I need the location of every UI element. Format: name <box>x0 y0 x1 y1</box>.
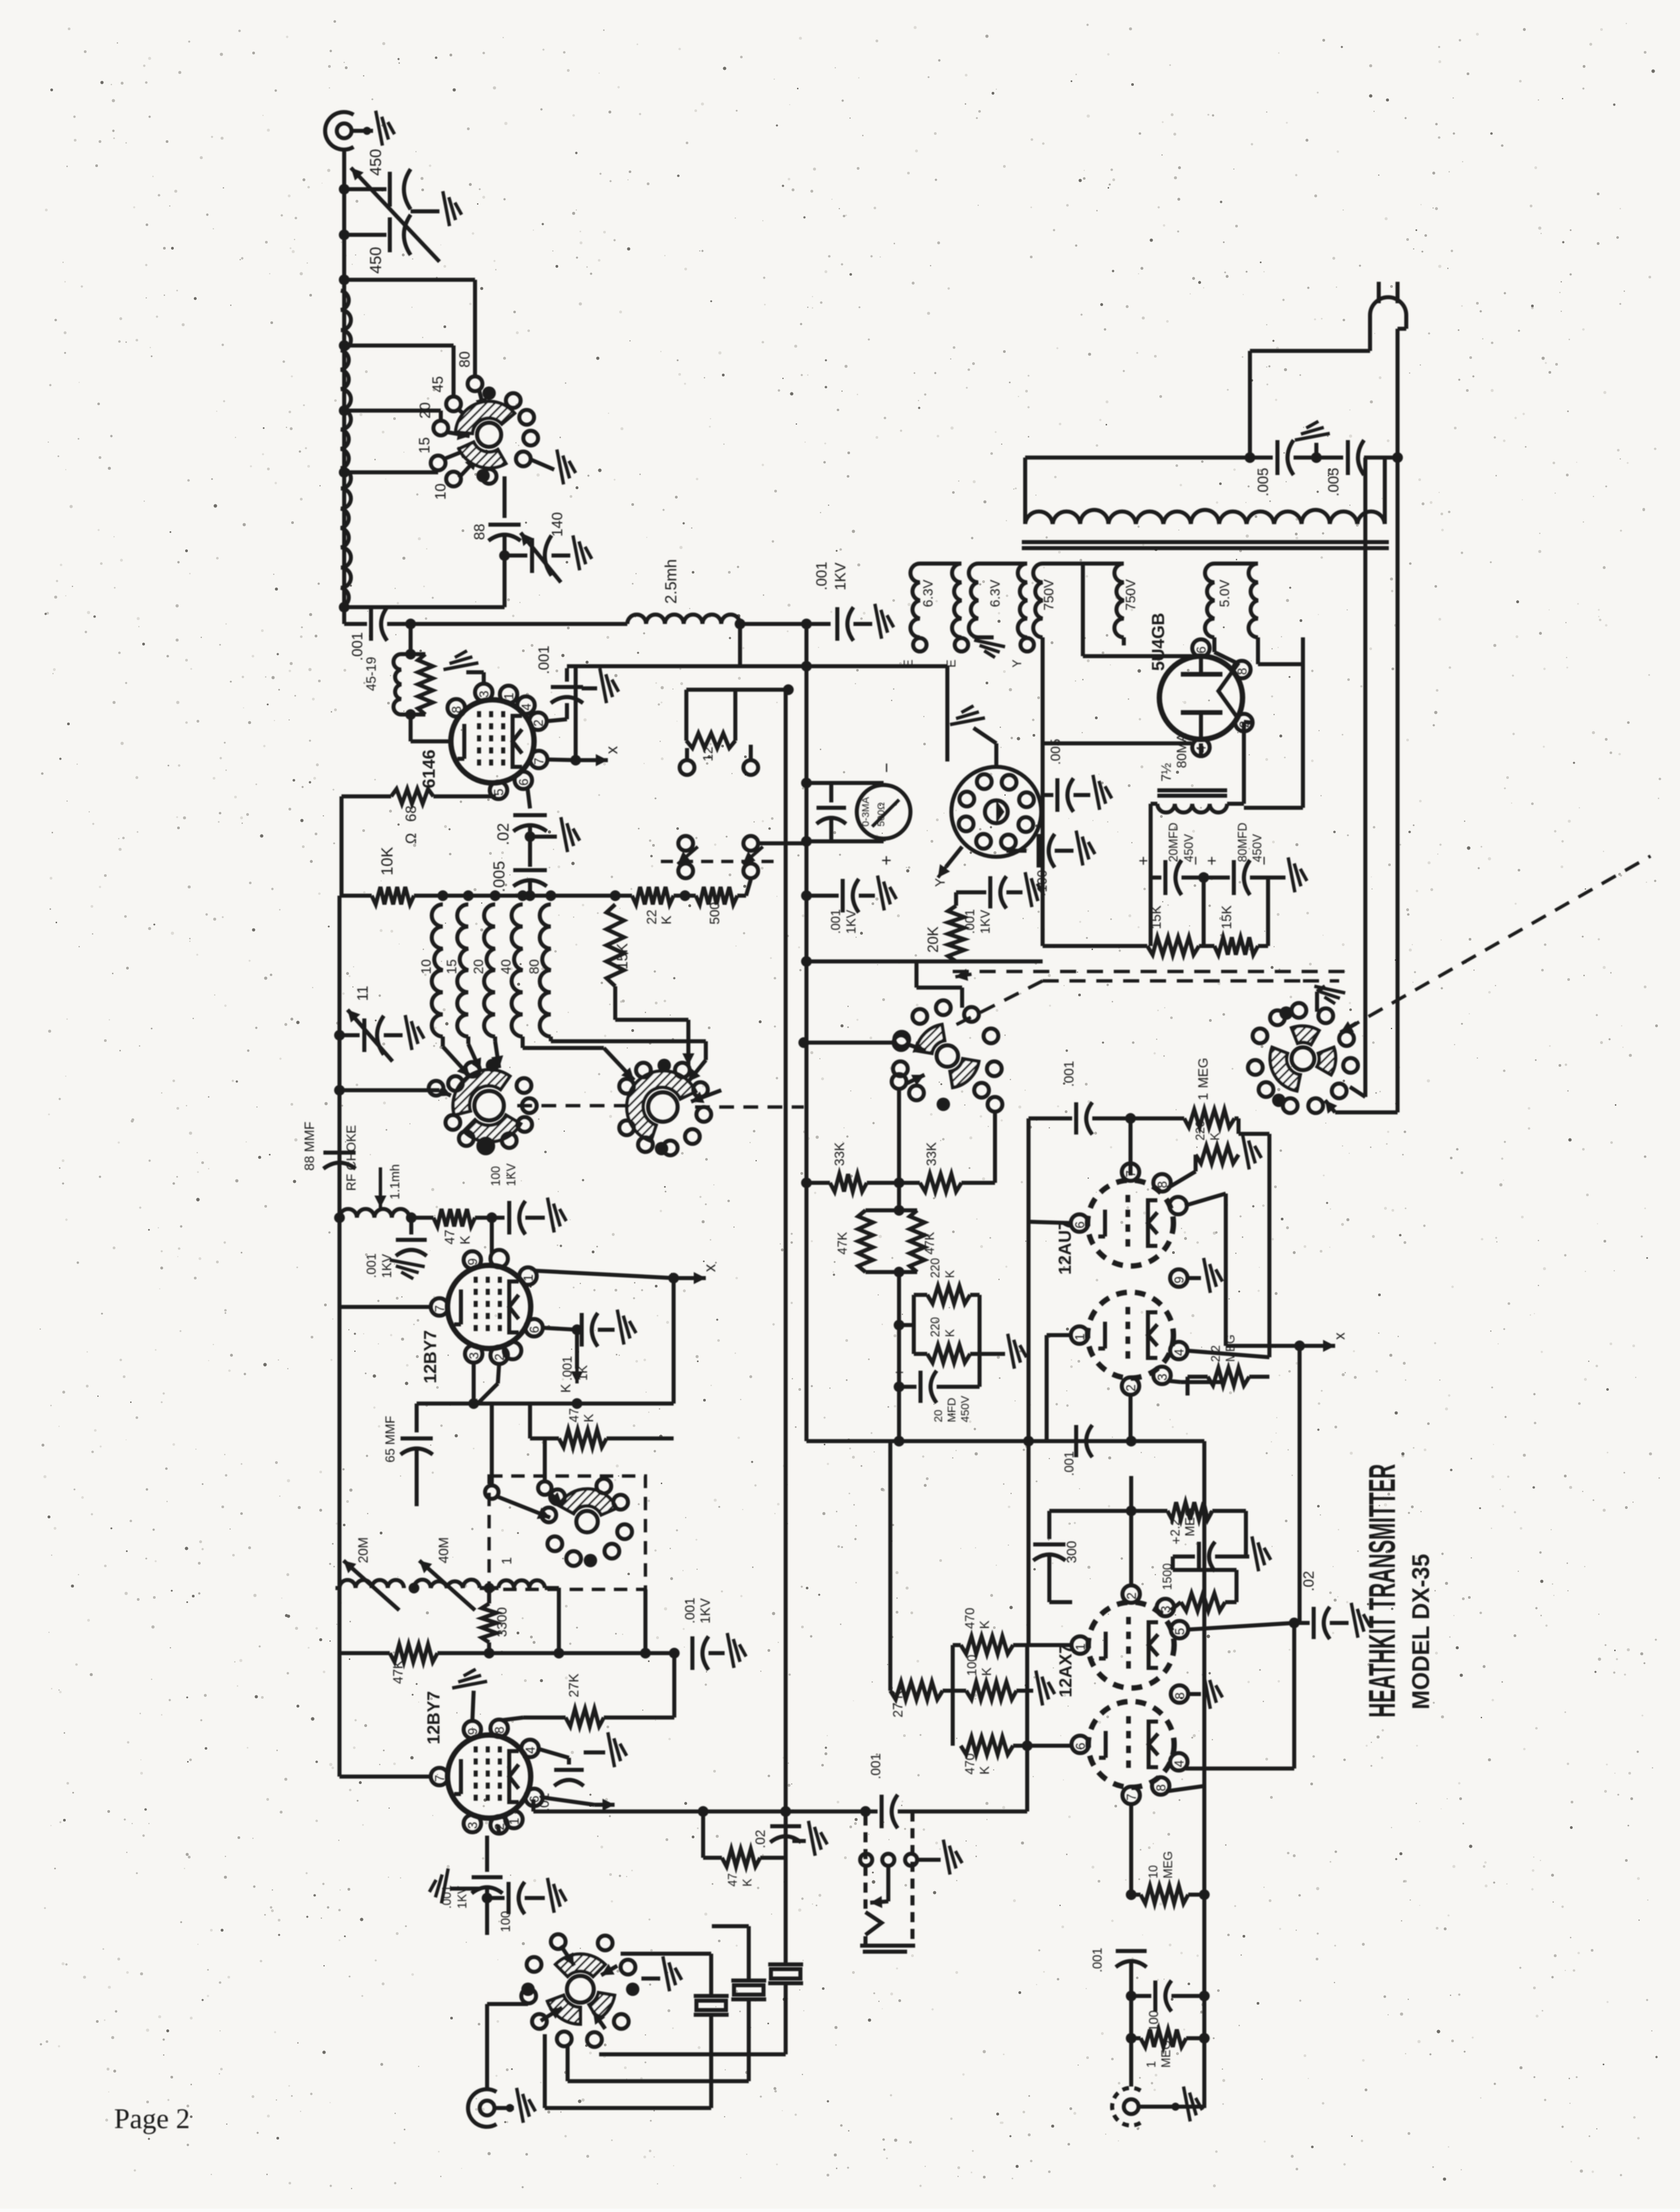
svg-text:7: 7 <box>1125 1793 1139 1801</box>
svg-text:450: 450 <box>367 149 385 176</box>
svg-text:450V: 450V <box>1251 834 1264 862</box>
svg-text:220: 220 <box>929 1317 942 1337</box>
svg-text:2: 2 <box>532 719 546 727</box>
svg-text:47: 47 <box>568 1408 582 1422</box>
svg-text:68: 68 <box>403 806 419 822</box>
svg-text:1: 1 <box>1073 1333 1088 1340</box>
svg-text:K: K <box>943 1329 957 1337</box>
svg-text:x: x <box>1331 1332 1348 1340</box>
svg-text:MODEL DX-35: MODEL DX-35 <box>1407 1554 1434 1709</box>
svg-text:+: + <box>876 855 896 865</box>
svg-text:27K: 27K <box>567 1673 582 1697</box>
svg-text:5U4GB: 5U4GB <box>1148 613 1168 671</box>
svg-text:3: 3 <box>478 690 492 698</box>
svg-text:47K: 47K <box>923 1232 937 1255</box>
svg-text:15: 15 <box>445 959 460 974</box>
svg-text:K: K <box>559 1383 574 1393</box>
svg-text:88: 88 <box>471 524 488 540</box>
svg-text:MEG: MEG <box>1196 1057 1211 1088</box>
svg-text:100: 100 <box>965 1654 980 1676</box>
svg-text:12: 12 <box>701 747 716 761</box>
svg-text:0-3MA: 0-3MA <box>860 797 872 827</box>
svg-text:K: K <box>458 1235 473 1245</box>
svg-text:1KV: 1KV <box>698 1598 713 1624</box>
svg-text:E: E <box>902 660 915 668</box>
svg-text:.001: .001 <box>813 562 830 590</box>
svg-text:12BY7: 12BY7 <box>420 1330 440 1384</box>
svg-text:470: 470 <box>963 1753 978 1775</box>
svg-text:7: 7 <box>533 757 547 765</box>
svg-text:450V: 450V <box>1182 834 1196 862</box>
svg-text:80MFD: 80MFD <box>1236 823 1249 862</box>
svg-text:20K: 20K <box>925 927 941 953</box>
svg-text:8: 8 <box>450 706 464 713</box>
svg-text:MFD: MFD <box>945 1398 958 1422</box>
svg-text:1: 1 <box>500 1557 515 1565</box>
svg-text:65 MMF: 65 MMF <box>384 1416 398 1463</box>
svg-text:K: K <box>582 1414 596 1422</box>
svg-text:1KV: 1KV <box>832 562 849 590</box>
svg-text:40M: 40M <box>437 1537 452 1563</box>
svg-text:20M: 20M <box>356 1537 371 1563</box>
svg-text:20MFD: 20MFD <box>1167 823 1180 862</box>
svg-text:12BY7: 12BY7 <box>423 1691 443 1745</box>
svg-text:40: 40 <box>499 959 514 974</box>
svg-text:.02: .02 <box>494 823 513 845</box>
svg-text:.005: .005 <box>1325 468 1342 496</box>
svg-text:27 K: 27 K <box>891 1689 906 1718</box>
svg-text:100: 100 <box>499 1911 513 1932</box>
svg-text:3300: 3300 <box>495 1608 510 1638</box>
svg-text:500Ω: 500Ω <box>876 802 887 827</box>
svg-text:8: 8 <box>1173 1692 1188 1699</box>
svg-text:220: 220 <box>1194 1120 1207 1141</box>
svg-text:Y: Y <box>933 878 948 887</box>
svg-text:5: 5 <box>1173 1628 1188 1635</box>
svg-text:45: 45 <box>429 376 446 392</box>
svg-text:500: 500 <box>708 902 723 925</box>
svg-text:Ω: Ω <box>403 833 419 844</box>
svg-text:.02: .02 <box>753 1830 768 1848</box>
svg-text:2: 2 <box>1124 1384 1139 1391</box>
svg-text:140: 140 <box>549 512 566 537</box>
svg-text:6.3V: 6.3V <box>988 579 1003 607</box>
svg-text:4: 4 <box>520 703 534 710</box>
svg-text:.02: .02 <box>1300 1571 1317 1591</box>
svg-text:47K: 47K <box>391 1660 406 1684</box>
svg-text:1.1mh: 1.1mh <box>388 1164 403 1200</box>
svg-text:47: 47 <box>726 1873 739 1887</box>
svg-text:15K: 15K <box>614 943 631 969</box>
svg-text:1: 1 <box>503 692 517 700</box>
svg-text:.001: .001 <box>829 909 843 934</box>
svg-text:Page 2: Page 2 <box>114 2104 190 2135</box>
svg-text:.001: .001 <box>1062 1061 1077 1087</box>
svg-text:450: 450 <box>367 247 385 274</box>
svg-text:.001: .001 <box>349 632 366 661</box>
svg-text:1K: 1K <box>576 1365 590 1381</box>
svg-text:6: 6 <box>1195 646 1209 653</box>
svg-text:1KV: 1KV <box>505 1163 518 1186</box>
svg-text:1: 1 <box>1196 1093 1211 1100</box>
svg-text:1KV: 1KV <box>979 910 993 934</box>
svg-text:100: 100 <box>489 1166 503 1186</box>
svg-text:3: 3 <box>466 1822 480 1829</box>
svg-text:MEG: MEG <box>1161 1851 1175 1879</box>
svg-text:80MA: 80MA <box>1175 733 1190 768</box>
svg-text:2.2: 2.2 <box>1209 1345 1222 1362</box>
svg-text:Y: Y <box>1010 660 1024 668</box>
svg-text:.001: .001 <box>561 1356 575 1381</box>
svg-text:RF CHOKE: RF CHOKE <box>345 1125 359 1191</box>
svg-text:MEG: MEG <box>1224 1334 1237 1362</box>
svg-text:.001: .001 <box>963 909 978 934</box>
svg-text:7½: 7½ <box>1159 763 1174 782</box>
svg-text:1: 1 <box>522 1274 536 1281</box>
svg-text:9: 9 <box>466 1728 480 1735</box>
svg-text:47K: 47K <box>836 1232 850 1255</box>
svg-text:5.0V: 5.0V <box>1218 579 1232 607</box>
svg-text:20: 20 <box>417 403 433 419</box>
svg-text:10: 10 <box>432 484 449 500</box>
svg-text:6: 6 <box>528 1326 542 1333</box>
svg-text:2.5mh: 2.5mh <box>662 559 680 604</box>
svg-text:+: + <box>1135 856 1153 865</box>
svg-text:7: 7 <box>433 1305 448 1312</box>
svg-text:K: K <box>1208 1133 1222 1141</box>
svg-text:.001: .001 <box>1091 1948 1105 1972</box>
svg-text:15: 15 <box>416 437 433 454</box>
svg-text:20: 20 <box>472 959 486 974</box>
svg-text:2: 2 <box>493 1353 507 1361</box>
svg-text:2: 2 <box>1125 1592 1139 1599</box>
svg-text:K: K <box>660 915 674 925</box>
svg-text:+: + <box>1203 856 1221 865</box>
svg-text:9: 9 <box>1173 1276 1187 1283</box>
svg-text:+: + <box>891 1368 908 1377</box>
svg-text:1: 1 <box>1145 2061 1158 2068</box>
svg-text:6: 6 <box>517 778 531 786</box>
svg-text:x: x <box>603 746 621 754</box>
svg-text:300: 300 <box>1065 1541 1080 1563</box>
svg-text:11: 11 <box>354 986 371 1001</box>
svg-text:.001: .001 <box>1063 1451 1077 1476</box>
svg-text:88 MMF: 88 MMF <box>303 1122 317 1171</box>
svg-text:.001: .001 <box>535 645 552 674</box>
svg-text:10K: 10K <box>378 847 397 876</box>
svg-text:450V: 450V <box>959 1395 972 1422</box>
svg-text:7: 7 <box>433 1775 448 1782</box>
svg-text:10: 10 <box>1147 1865 1160 1879</box>
svg-text:1KV: 1KV <box>380 1254 395 1278</box>
svg-text:47: 47 <box>443 1230 458 1245</box>
svg-text:K: K <box>978 1766 992 1775</box>
svg-text:HEATHKIT TRANSMITTER: HEATHKIT TRANSMITTER <box>1361 1464 1403 1718</box>
svg-text:.001: .001 <box>683 1597 698 1624</box>
svg-text:1: 1 <box>508 1818 522 1825</box>
svg-text:MEG: MEG <box>1159 2040 1173 2068</box>
svg-text:E: E <box>945 660 958 668</box>
svg-text:22: 22 <box>645 910 660 925</box>
svg-text:10: 10 <box>419 959 434 974</box>
svg-text:8: 8 <box>1236 668 1250 675</box>
svg-text:.005: .005 <box>490 861 509 892</box>
svg-text:3: 3 <box>468 1352 482 1359</box>
svg-text:750V: 750V <box>1042 579 1057 611</box>
svg-text:.01: .01 <box>537 1793 552 1811</box>
svg-text:33K: 33K <box>925 1142 939 1166</box>
svg-text:80: 80 <box>456 352 473 368</box>
svg-text:6: 6 <box>1074 1742 1088 1750</box>
svg-text:6146: 6146 <box>419 749 439 788</box>
svg-text:15K: 15K <box>1220 905 1235 929</box>
svg-text:4: 4 <box>1173 1760 1187 1767</box>
svg-text:9: 9 <box>466 1258 480 1265</box>
svg-text:1: 1 <box>1074 1643 1088 1650</box>
svg-text:750V: 750V <box>1124 579 1139 611</box>
svg-text:470: 470 <box>963 1608 978 1629</box>
svg-text:K: K <box>741 1879 754 1887</box>
svg-text:8: 8 <box>493 1726 507 1734</box>
svg-text:−: − <box>876 763 896 773</box>
svg-text:x: x <box>701 1264 719 1272</box>
svg-text:4: 4 <box>1173 1349 1187 1356</box>
svg-text:K: K <box>978 1620 992 1629</box>
svg-text:+: + <box>1169 1536 1184 1544</box>
svg-text:2.2: 2.2 <box>1169 1519 1183 1536</box>
svg-text:.001: .001 <box>869 1753 884 1779</box>
svg-text:220: 220 <box>929 1258 942 1278</box>
svg-text:6: 6 <box>1073 1221 1088 1228</box>
svg-text:33K: 33K <box>833 1142 847 1166</box>
svg-text:K: K <box>943 1270 957 1278</box>
svg-text:.001: .001 <box>365 1253 379 1278</box>
svg-text:1500: 1500 <box>1161 1563 1174 1590</box>
svg-text:MEG: MEG <box>1184 1508 1198 1536</box>
svg-text:.005: .005 <box>1255 468 1271 496</box>
svg-text:45-19: 45-19 <box>364 657 379 691</box>
svg-text:K: K <box>980 1667 994 1676</box>
svg-text:6.3V: 6.3V <box>921 579 936 607</box>
svg-text:4: 4 <box>524 1746 538 1754</box>
svg-text:80: 80 <box>527 959 542 974</box>
svg-text:20: 20 <box>932 1410 945 1422</box>
svg-text:15K: 15K <box>1149 905 1164 929</box>
svg-text:1KV: 1KV <box>845 910 859 934</box>
